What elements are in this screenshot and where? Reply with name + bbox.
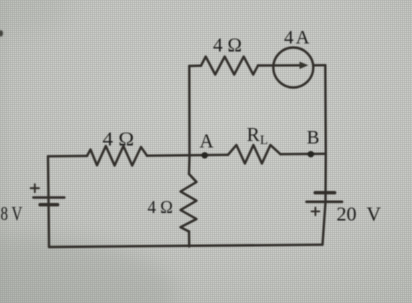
current source arrow <box>277 64 303 66</box>
plus sign 20V <box>312 208 320 216</box>
wire right vertical <box>323 65 326 245</box>
wire vertical resistor lead top <box>181 174 197 232</box>
plus sign 8V <box>31 184 39 192</box>
wire bottom horizontal <box>49 245 323 247</box>
wire vertical resistor lead bottom <box>188 232 191 247</box>
wire top branch left segment <box>189 64 201 67</box>
svg-text:8 V: 8 V <box>1 203 23 225</box>
svg-text:A: A <box>200 132 214 153</box>
svg-text:L: L <box>260 132 268 147</box>
resistor 4ohm top <box>201 57 258 75</box>
wire top left vertical (node to top branch) <box>188 66 191 174</box>
wire middle: RL to right vertical <box>281 153 326 156</box>
svg-text:R: R <box>247 125 260 146</box>
battery V2 20V long plate <box>307 201 343 204</box>
node B dot <box>308 151 314 157</box>
svg-text:B: B <box>307 128 320 149</box>
svg-text:4 Ω: 4 Ω <box>213 36 242 57</box>
battery V1 8V short plate <box>40 203 58 206</box>
resistor RL <box>228 145 281 164</box>
svg-text:20 V: 20 V <box>337 204 382 226</box>
wire resistor to current source <box>258 64 276 66</box>
battery V2 20V short plate <box>315 191 334 194</box>
resistor 4ohm middle <box>87 146 147 166</box>
svg-text:4 Ω: 4 Ω <box>103 130 135 151</box>
node A dot <box>202 152 208 158</box>
svg-text:4: 4 <box>284 28 294 49</box>
wire middle: resistor to RL <box>147 154 228 157</box>
svg-text:4 Ω: 4 Ω <box>148 197 173 217</box>
wire current source to right corner <box>313 64 325 67</box>
current source U1 circle <box>273 48 313 88</box>
wire left vertical <box>48 156 49 247</box>
battery V1 8V long plate <box>33 196 64 198</box>
svg-text:A: A <box>296 28 310 49</box>
wire middle horizontal <box>48 155 87 158</box>
